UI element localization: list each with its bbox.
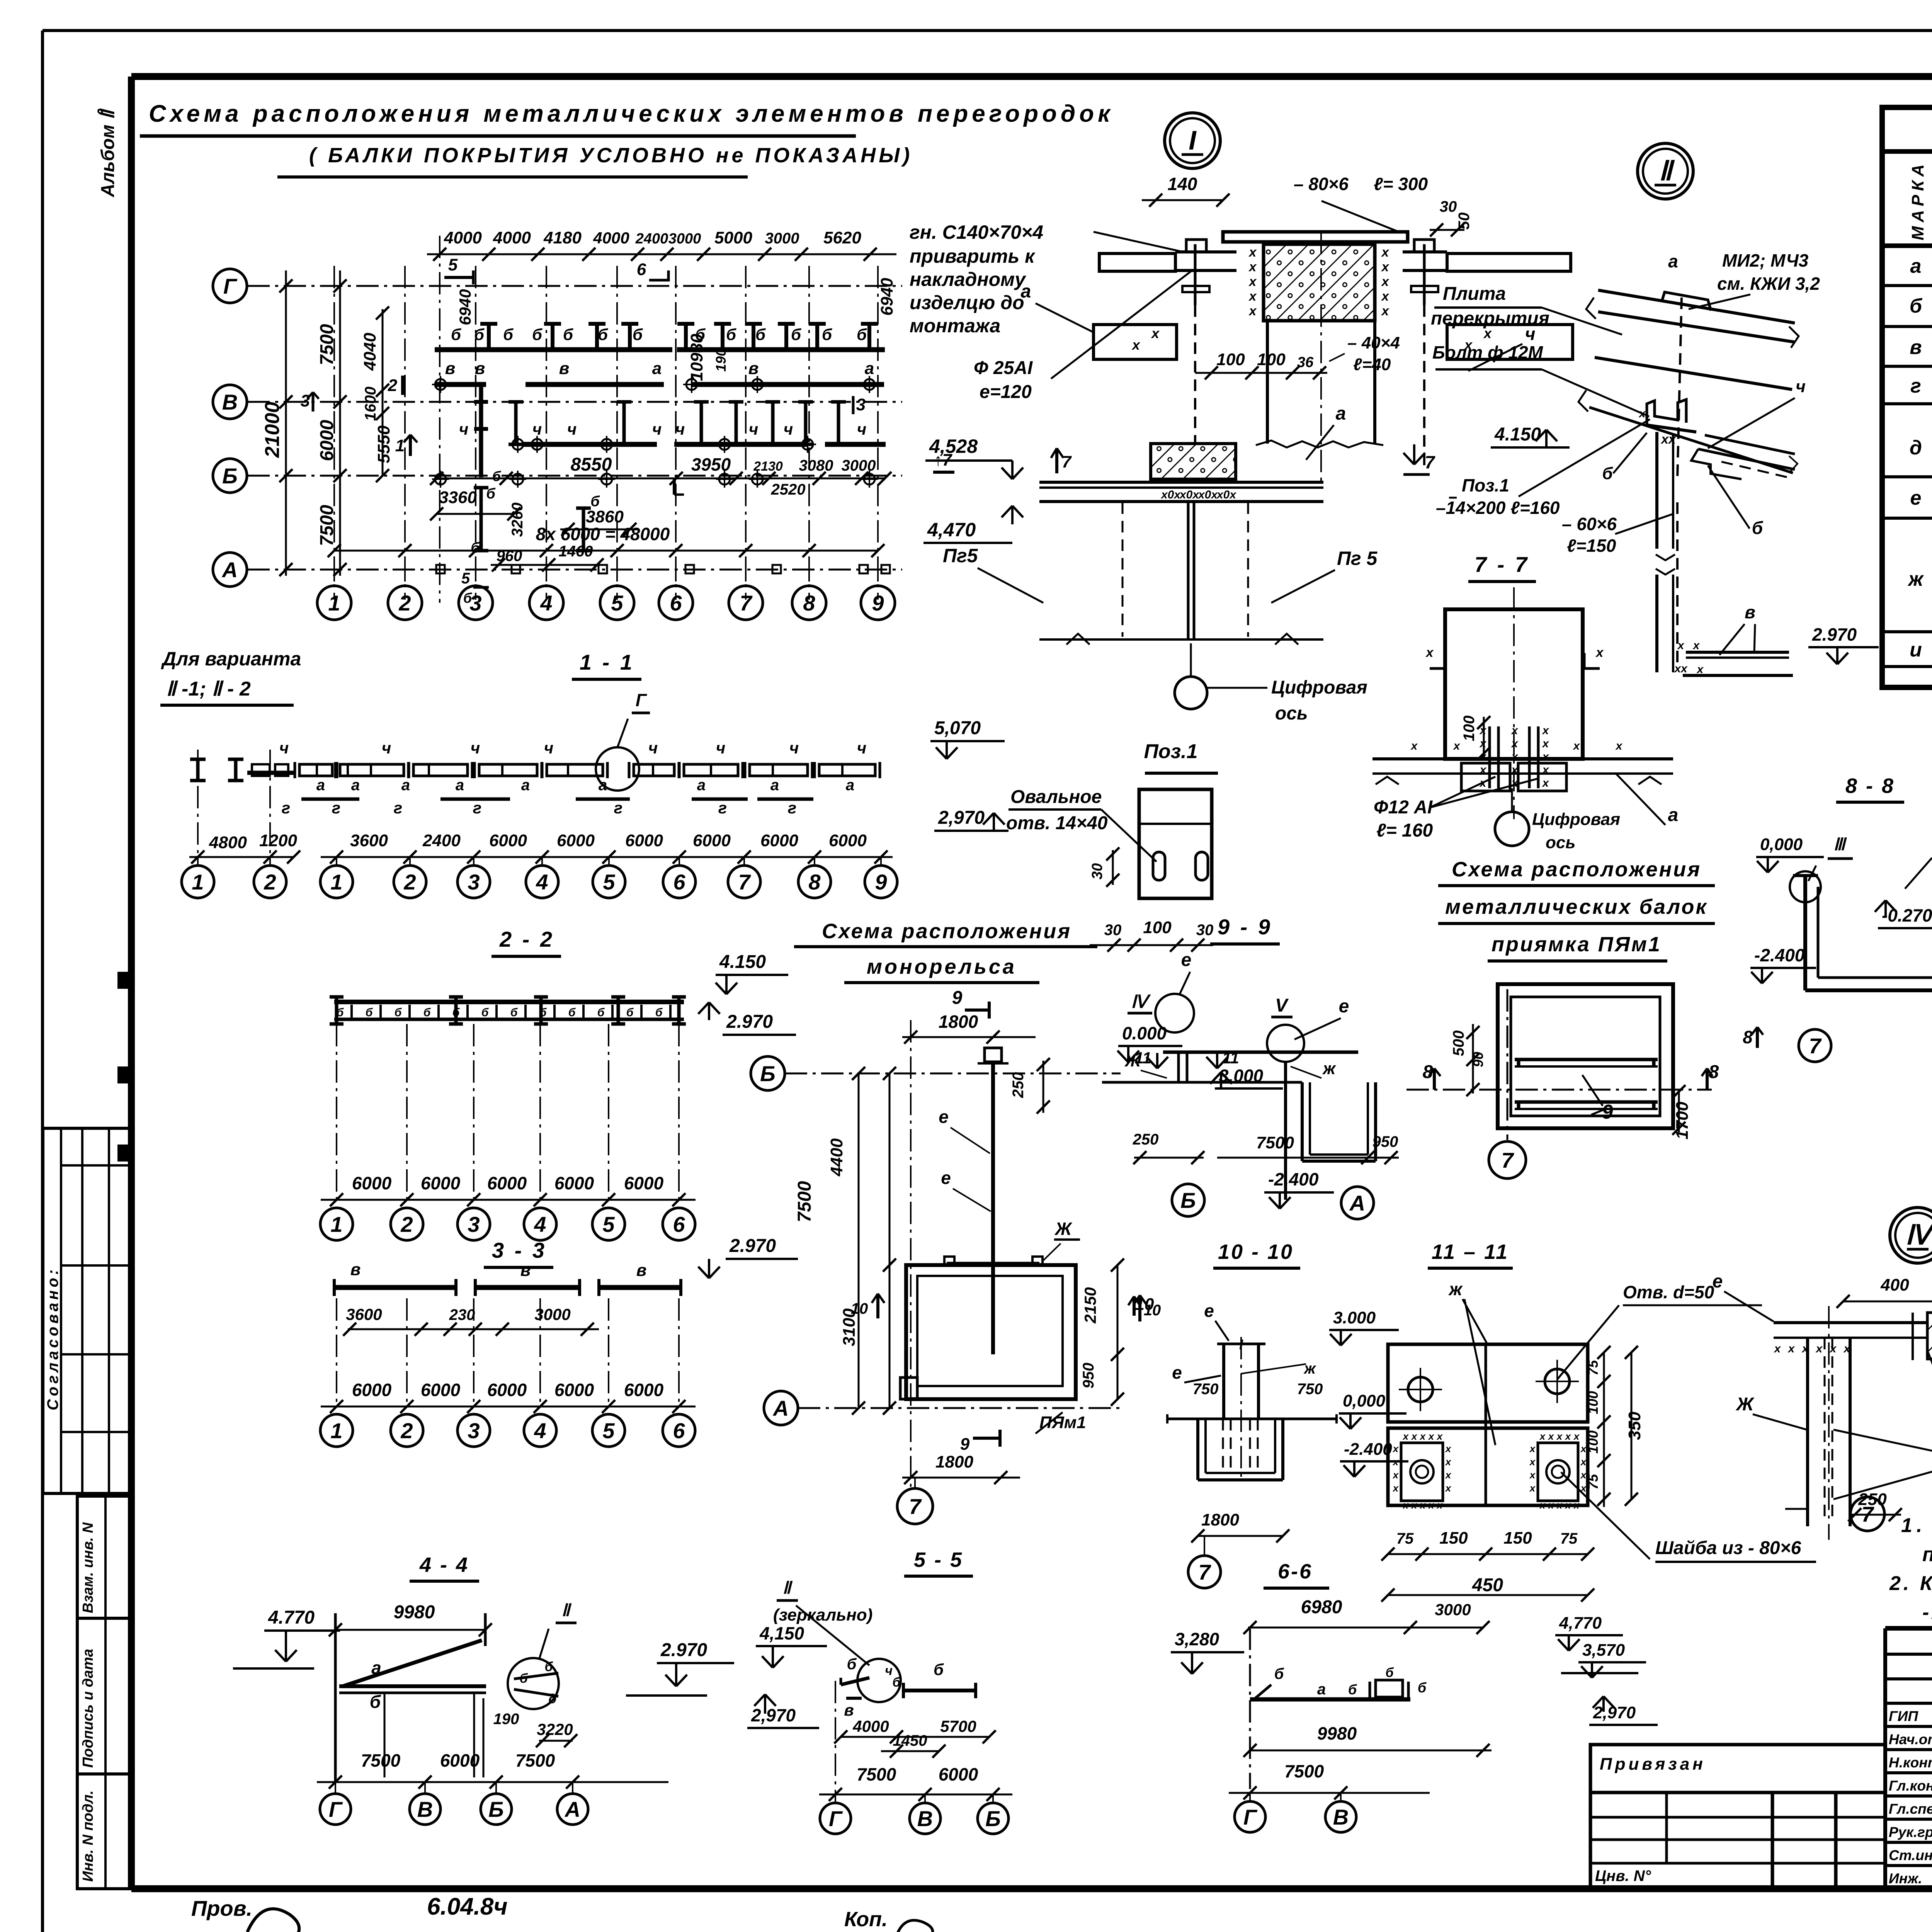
svg-text:ч: ч (716, 739, 726, 757)
svg-text:-2 тонны.: -2 тонны. (1922, 1601, 1932, 1624)
svg-text:Отв. d=50: Отв. d=50 (1623, 1282, 1714, 1302)
svg-text:е: е (1204, 1301, 1214, 1321)
svg-text:x: x (1445, 1469, 1452, 1481)
svg-text:1: 1 (328, 591, 340, 615)
svg-text:а: а (1336, 403, 1346, 424)
svg-text:5: 5 (448, 255, 458, 274)
svg-text:ж: ж (1448, 1279, 1463, 1299)
svg-text:6940: 6940 (878, 278, 896, 316)
svg-text:в: в (1910, 336, 1922, 359)
svg-text:7: 7 (1198, 1560, 1211, 1584)
svg-text:Схема расположения: Схема расположения (822, 920, 1071, 943)
svg-text:x: x (1580, 1456, 1587, 1468)
svg-text:ПЯм1: ПЯм1 (1039, 1413, 1086, 1432)
svg-text:230: 230 (449, 1306, 475, 1323)
svg-text:8х 6000 = 48000: 8х 6000 = 48000 (536, 524, 670, 544)
svg-text:5 - 5: 5 - 5 (914, 1548, 963, 1571)
svg-text:x: x (1529, 1456, 1536, 1468)
svg-text:x: x (1453, 740, 1461, 752)
svg-text:x: x (1615, 740, 1623, 752)
svg-text:ГИП: ГИП (1889, 1708, 1918, 1724)
svg-text:2: 2 (400, 1418, 413, 1443)
svg-text:6: 6 (673, 870, 685, 894)
svg-text:1. Сварку монтажных швов пр: 1. Сварку монтажных швов производить эле… (1901, 1514, 1932, 1537)
svg-text:3950: 3950 (691, 454, 731, 474)
svg-text:-2.400: -2.400 (1268, 1169, 1319, 1189)
svg-text:x: x (1542, 750, 1549, 763)
svg-text:6000: 6000 (421, 1173, 461, 1193)
svg-text:x: x (1381, 274, 1390, 289)
svg-text:г: г (1910, 375, 1921, 397)
svg-text:3,570: 3,570 (1582, 1641, 1625, 1660)
svg-text:Согласовано:: Согласовано: (44, 1267, 61, 1410)
svg-text:б: б (633, 325, 643, 344)
svg-text:а: а (371, 1658, 381, 1678)
svg-text:а: а (1668, 251, 1678, 271)
svg-text:б: б (510, 1006, 518, 1019)
svg-text:x: x (1419, 1430, 1426, 1442)
svg-text:8550: 8550 (571, 454, 612, 475)
svg-text:2.970: 2.970 (660, 1640, 707, 1660)
svg-text:7: 7 (1861, 1502, 1874, 1526)
svg-text:x: x (1565, 1499, 1571, 1511)
svg-text:2 - 2: 2 - 2 (499, 927, 554, 951)
svg-text:x: x (1529, 1469, 1536, 1481)
svg-text:6000: 6000 (624, 1173, 664, 1193)
svg-text:Г: Г (636, 690, 647, 710)
svg-text:ℓ=40: ℓ=40 (1353, 355, 1391, 374)
svg-text:100: 100 (1585, 1391, 1601, 1414)
svg-text:1800: 1800 (939, 1012, 978, 1032)
svg-text:б: б (1752, 518, 1764, 538)
svg-text:7500: 7500 (515, 1750, 555, 1770)
svg-text:1700: 1700 (1673, 1102, 1692, 1139)
svg-text:x: x (1151, 325, 1160, 341)
svg-text:6000: 6000 (352, 1173, 392, 1193)
svg-text:400: 400 (1880, 1276, 1909, 1294)
svg-text:2: 2 (388, 376, 398, 395)
svg-text:б: б (481, 1006, 489, 1019)
svg-text:1: 1 (192, 870, 204, 894)
svg-text:6000: 6000 (489, 831, 527, 850)
svg-text:и: и (1910, 639, 1922, 661)
svg-text:4000: 4000 (852, 1717, 889, 1735)
svg-text:е: е (1339, 996, 1349, 1017)
svg-text:4.150: 4.150 (1494, 424, 1541, 445)
svg-text:x: x (1573, 1430, 1580, 1442)
svg-text:б: б (451, 325, 461, 344)
svg-text:6000: 6000 (625, 831, 663, 850)
svg-text:1800: 1800 (1201, 1510, 1239, 1529)
svg-text:x: x (1556, 1499, 1563, 1511)
svg-text:в: в (1745, 602, 1755, 622)
svg-text:30: 30 (1440, 198, 1457, 215)
svg-text:ось: ось (1275, 703, 1308, 724)
svg-text:ч: ч (279, 739, 289, 757)
svg-text:x: x (1677, 639, 1685, 652)
svg-text:x: x (1692, 639, 1700, 652)
svg-text:б: б (755, 325, 766, 344)
svg-text:изделцю до: изделцю до (910, 292, 1024, 313)
svg-text:ч: ч (382, 739, 391, 757)
svg-text:9 - 9: 9 - 9 (1218, 915, 1272, 939)
svg-text:950: 950 (1080, 1363, 1097, 1389)
svg-text:x: x (1787, 1342, 1795, 1355)
svg-text:б: б (1602, 464, 1613, 483)
svg-text:6: 6 (673, 1418, 685, 1443)
svg-text:б: б (1348, 1682, 1357, 1697)
svg-text:5: 5 (603, 870, 615, 894)
svg-text:б: б (1418, 1680, 1427, 1696)
svg-text:А: А (221, 558, 238, 582)
svg-text:ℓ=150: ℓ=150 (1567, 536, 1616, 556)
svg-text:Б: Б (222, 464, 238, 488)
svg-text:Овальное: Овальное (1010, 787, 1102, 807)
svg-text:Гл.констр: Гл.констр (1889, 1778, 1932, 1794)
svg-text:б: б (474, 325, 485, 344)
svg-text:6000: 6000 (554, 1380, 594, 1400)
svg-text:190: 190 (493, 1711, 519, 1728)
svg-text:3080: 3080 (799, 457, 833, 474)
svg-text:ч: ч (532, 420, 542, 438)
svg-text:Инв. N подл.: Инв. N подл. (80, 1791, 96, 1882)
svg-text:3 - 3: 3 - 3 (492, 1238, 547, 1262)
svg-text:отв. 14×40: отв. 14×40 (1006, 813, 1108, 833)
svg-text:а: а (865, 359, 874, 378)
svg-text:Пров.: Пров. (191, 1896, 252, 1920)
svg-text:( БАЛКИ ПОКРЫТИЯ УСЛОВНО не: ( БАЛКИ ПОКРЫТИЯ УСЛОВНО не ПОКАЗАНЫ) (309, 144, 913, 167)
svg-text:6000: 6000 (624, 1380, 664, 1400)
svg-text:г: г (473, 799, 481, 817)
svg-text:Г: Г (223, 274, 238, 298)
svg-text:x: x (1595, 645, 1604, 660)
svg-text:2,970: 2,970 (1593, 1703, 1636, 1722)
svg-text:x: x (1428, 1430, 1435, 1442)
svg-text:а: а (1668, 805, 1679, 825)
svg-text:б: б (463, 590, 473, 606)
svg-text:9: 9 (872, 591, 884, 615)
svg-text:6940: 6940 (456, 289, 474, 325)
svg-text:2,970: 2,970 (751, 1705, 796, 1725)
svg-text:3220: 3220 (537, 1720, 573, 1738)
svg-text:36: 36 (1297, 354, 1314, 371)
svg-text:7500: 7500 (794, 1181, 815, 1222)
svg-text:7: 7 (1809, 1034, 1822, 1058)
svg-text:2.970: 2.970 (729, 1236, 776, 1256)
svg-text:б: б (857, 325, 867, 344)
svg-text:4.150: 4.150 (719, 952, 766, 972)
svg-text:ℓ= 300: ℓ= 300 (1374, 174, 1428, 194)
svg-text:5,070: 5,070 (934, 718, 981, 738)
svg-text:10: 10 (851, 1300, 868, 1317)
svg-text:2,970: 2,970 (938, 808, 985, 828)
svg-text:x: x (1425, 645, 1434, 660)
svg-text:а: а (697, 777, 706, 794)
svg-text:В: В (917, 1806, 933, 1831)
svg-text:е: е (939, 1107, 949, 1127)
svg-text:металлических балок: металлических балок (1445, 895, 1708, 918)
svg-text:100: 100 (1257, 350, 1286, 369)
svg-text:в: в (636, 1261, 647, 1280)
svg-text:4180: 4180 (543, 228, 582, 247)
svg-text:накладному: накладному (910, 269, 1026, 290)
svg-text:-0.270: -0.270 (1882, 905, 1932, 925)
svg-text:Поз.1: Поз.1 (1144, 740, 1197, 763)
svg-text:приямка ПЯм1: приямка ПЯм1 (1492, 933, 1662, 956)
svg-text:75: 75 (1560, 1530, 1578, 1547)
svg-text:по ГОСТ 9467-75 с катетом шва: по ГОСТ 9467-75 с катетом шва равным 8 м… (1922, 1543, 1932, 1566)
svg-text:4: 4 (536, 870, 548, 894)
svg-text:а: а (316, 777, 325, 794)
svg-text:а: а (401, 777, 410, 794)
svg-text:МИ2; МЧ3: МИ2; МЧ3 (1722, 250, 1809, 270)
svg-text:x: x (1511, 737, 1519, 750)
svg-text:д: д (1910, 437, 1922, 459)
svg-text:б: б (544, 1660, 553, 1674)
svg-text:x: x (1419, 1499, 1426, 1511)
svg-text:75: 75 (1585, 1360, 1601, 1376)
svg-text:2130: 2130 (753, 459, 783, 474)
svg-text:б: б (655, 1006, 663, 1019)
svg-text:3: 3 (856, 395, 866, 414)
svg-text:x: x (1511, 764, 1519, 776)
svg-text:2: 2 (398, 591, 411, 615)
svg-text:x: x (1774, 1342, 1781, 1355)
svg-text:7: 7 (740, 591, 753, 615)
svg-text:Ⅱ -1; Ⅱ - 2: Ⅱ -1; Ⅱ - 2 (166, 678, 251, 700)
svg-text:x0x: x0x (1179, 488, 1199, 501)
svg-text:б: б (822, 325, 832, 344)
svg-text:1: 1 (395, 436, 405, 455)
svg-text:Г: Г (829, 1806, 843, 1831)
svg-text:Цнв. N°: Цнв. N° (1595, 1867, 1651, 1884)
svg-text:x: x (1410, 740, 1418, 752)
svg-text:б: б (847, 1656, 857, 1673)
svg-text:x: x (1511, 750, 1519, 763)
svg-text:б: б (568, 1006, 576, 1019)
svg-text:x: x (1548, 1430, 1554, 1442)
svg-text:7: 7 (738, 870, 751, 894)
svg-text:8: 8 (808, 870, 821, 894)
svg-text:x: x (1248, 289, 1257, 304)
svg-text:4040: 4040 (361, 333, 379, 371)
svg-text:7500: 7500 (361, 1750, 401, 1770)
svg-text:Инж.: Инж. (1889, 1871, 1922, 1886)
svg-text:е: е (1910, 487, 1922, 509)
svg-text:ч: ч (1796, 377, 1806, 396)
svg-text:7: 7 (1425, 452, 1435, 472)
svg-text:3000: 3000 (842, 457, 876, 474)
svg-text:ж: ж (1322, 1059, 1337, 1078)
svg-text:а: а (456, 777, 464, 794)
svg-text:6000: 6000 (939, 1764, 978, 1784)
svg-text:а: а (521, 777, 530, 794)
svg-text:x: x (1573, 1499, 1580, 1511)
svg-text:6000: 6000 (693, 831, 731, 850)
svg-text:11: 11 (1222, 1049, 1239, 1067)
svg-text:Ⅲ: Ⅲ (1833, 835, 1847, 854)
svg-text:x: x (1539, 1430, 1546, 1442)
svg-text:б: б (423, 1006, 431, 1019)
svg-text:3360: 3360 (439, 488, 477, 507)
svg-text:см. КЖИ 3,2: см. КЖИ 3,2 (1717, 274, 1820, 294)
svg-text:7: 7 (1501, 1148, 1514, 1172)
svg-text:x: x (1815, 1342, 1823, 1355)
svg-text:ч: ч (857, 420, 867, 438)
svg-text:3: 3 (468, 1212, 480, 1236)
svg-text:ось: ось (1546, 833, 1575, 852)
svg-text:г: г (394, 799, 402, 817)
svg-text:3600: 3600 (346, 1305, 382, 1323)
svg-text:б: б (1910, 295, 1923, 317)
svg-text:4: 4 (534, 1418, 546, 1443)
svg-text:В: В (1333, 1805, 1349, 1829)
svg-text:350: 350 (1625, 1412, 1644, 1440)
svg-text:Поз.1: Поз.1 (1462, 475, 1509, 495)
svg-text:6980: 6980 (1301, 1597, 1342, 1617)
svg-text:5: 5 (602, 1212, 615, 1236)
svg-text:I: I (1189, 125, 1197, 155)
svg-text:4,150: 4,150 (759, 1623, 804, 1643)
svg-text:190: 190 (713, 349, 729, 372)
svg-text:x: x (1411, 1430, 1418, 1442)
svg-text:5620: 5620 (823, 228, 861, 247)
svg-text:11 – 11: 11 – 11 (1432, 1240, 1509, 1264)
svg-text:-2.400: -2.400 (1754, 945, 1805, 965)
svg-text:4000: 4000 (593, 229, 629, 247)
svg-text:6: 6 (637, 260, 646, 279)
svg-text:5: 5 (611, 591, 623, 615)
svg-text:4: 4 (540, 591, 552, 615)
svg-text:3: 3 (468, 1418, 480, 1443)
svg-text:ч: ч (784, 420, 793, 438)
svg-text:x: x (1511, 724, 1519, 737)
svg-text:б: б (563, 325, 573, 344)
svg-text:4 - 4: 4 - 4 (419, 1553, 469, 1577)
svg-text:ч: ч (789, 739, 799, 757)
svg-text:1: 1 (330, 870, 342, 894)
svg-text:x: x (1556, 1430, 1563, 1442)
svg-text:МАРКА: МАРКА (1908, 160, 1927, 240)
svg-text:30: 30 (1196, 922, 1214, 939)
svg-text:8: 8 (803, 591, 815, 615)
svg-text:б: б (590, 493, 600, 510)
svg-text:1200: 1200 (259, 831, 297, 850)
svg-text:Б: Б (1180, 1188, 1196, 1213)
svg-text:б: б (503, 325, 514, 344)
svg-text:б: б (370, 1692, 381, 1712)
svg-text:1600: 1600 (362, 387, 379, 421)
svg-text:8 - 8: 8 - 8 (1845, 774, 1895, 798)
svg-text:x: x (1436, 1499, 1443, 1511)
svg-text:3,280: 3,280 (1175, 1629, 1219, 1649)
svg-text:250: 250 (1133, 1131, 1159, 1148)
svg-text:4: 4 (534, 1212, 546, 1236)
svg-text:7: 7 (909, 1494, 922, 1519)
svg-text:6000: 6000 (421, 1380, 461, 1400)
svg-text:Ст.инж: Ст.инж (1889, 1847, 1932, 1863)
svg-text:б: б (892, 1675, 901, 1690)
svg-text:x: x (1542, 724, 1549, 737)
svg-text:2150: 2150 (1081, 1287, 1099, 1323)
svg-text:3860: 3860 (586, 507, 624, 526)
svg-text:450: 450 (1472, 1575, 1503, 1595)
svg-text:5: 5 (602, 1418, 615, 1443)
svg-text:Ф 25АI: Ф 25АI (974, 358, 1033, 378)
svg-text:2520: 2520 (771, 481, 806, 498)
svg-text:Г: Г (1243, 1805, 1258, 1829)
svg-text:в: в (475, 359, 485, 378)
svg-text:ч: ч (749, 420, 759, 438)
svg-text:Ж: Ж (1054, 1219, 1073, 1239)
svg-text:А: А (1349, 1191, 1365, 1215)
svg-text:– 80×6: – 80×6 (1294, 174, 1349, 194)
svg-text:x: x (1445, 1482, 1452, 1494)
svg-text:30: 30 (1089, 863, 1105, 879)
svg-text:г: г (332, 799, 340, 817)
svg-text:4,770: 4,770 (1559, 1614, 1602, 1633)
svg-text:7500: 7500 (317, 324, 337, 365)
svg-text:г: г (718, 799, 727, 817)
svg-text:в: в (350, 1260, 361, 1279)
svg-text:6000: 6000 (557, 831, 595, 850)
svg-text:x: x (1392, 1443, 1399, 1454)
svg-text:6: 6 (673, 1212, 685, 1236)
svg-text:6: 6 (670, 591, 682, 615)
svg-text:В: В (417, 1797, 433, 1821)
svg-text:а: а (846, 777, 854, 794)
svg-text:Пг5: Пг5 (943, 545, 978, 566)
svg-text:е: е (1181, 950, 1192, 970)
svg-text:3000: 3000 (668, 231, 701, 247)
svg-text:4000: 4000 (444, 228, 482, 247)
svg-text:100: 100 (1585, 1430, 1601, 1454)
svg-text:140: 140 (1168, 174, 1197, 194)
svg-text:Ж: Ж (1735, 1394, 1755, 1415)
svg-text:9: 9 (960, 1435, 970, 1454)
svg-text:г: г (282, 799, 290, 817)
svg-text:5550: 5550 (374, 425, 393, 463)
svg-text:Взам. инв. N: Взам. инв. N (80, 1522, 96, 1613)
svg-text:x: x (1696, 663, 1704, 676)
svg-text:Шайба из - 80×6: Шайба из - 80×6 (1655, 1538, 1801, 1558)
svg-text:x: x (1381, 289, 1390, 304)
svg-text:8: 8 (1743, 1027, 1753, 1047)
svg-text:0,000: 0,000 (1760, 835, 1803, 854)
svg-text:x0x: x0x (1216, 488, 1236, 501)
svg-text:x: x (1248, 304, 1257, 318)
svg-text:Подпись и дата: Подпись и дата (80, 1649, 96, 1768)
svg-text:6000: 6000 (317, 420, 337, 461)
svg-text:2.970: 2.970 (726, 1012, 773, 1032)
svg-text:3600: 3600 (350, 831, 388, 850)
svg-text:Альбом Ⅱ̊: Альбом Ⅱ̊ (97, 108, 118, 197)
svg-text:x: x (1479, 764, 1487, 776)
svg-text:9980: 9980 (1317, 1723, 1357, 1743)
svg-text:б: б (934, 1660, 944, 1679)
svg-text:6000: 6000 (440, 1750, 480, 1770)
svg-text:7500: 7500 (1284, 1761, 1324, 1781)
svg-text:Плита: Плита (1443, 284, 1506, 304)
svg-text:6000: 6000 (829, 831, 867, 850)
svg-text:монтажа: монтажа (910, 315, 1000, 337)
svg-text:x: x (1542, 777, 1549, 789)
svg-text:е: е (1713, 1271, 1723, 1292)
svg-text:5: 5 (461, 570, 470, 587)
svg-text:6.04.8ч: 6.04.8ч (427, 1893, 508, 1920)
svg-text:9: 9 (875, 870, 887, 894)
svg-text:приварить к: приварить к (910, 245, 1036, 267)
